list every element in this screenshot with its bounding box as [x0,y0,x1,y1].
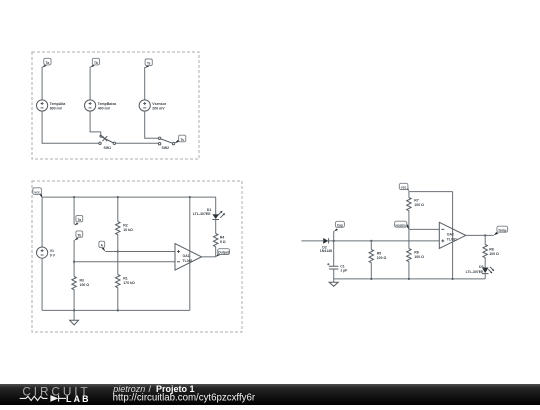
svg-text:SW2: SW2 [162,146,170,150]
bottom bus wire (right circuit) [334,278,486,280]
junction top bus / R2 [117,196,119,198]
svg-text:Ts: Ts [147,62,151,66]
wire R7 to NODE0 [408,211,410,230]
junction main wire / R5 [370,240,372,242]
svg-text:9 V: 9 V [50,254,56,258]
wire V1 to bottom bus [41,258,43,310]
resistor R4 5 Ohm [214,234,226,247]
wire to op-amp inverting input [74,261,175,263]
svg-text:R1: R1 [123,277,128,281]
feedback wire vcc corner to opamp column [409,191,453,193]
svg-text:Ta: Ta [78,218,82,222]
svg-text:400 mV: 400 mV [98,107,111,111]
input wire (right circuit) [302,240,324,242]
wire Ta to V source TempAlta [41,67,43,100]
svg-text:Ts: Ts [180,138,184,142]
dashed enclosure box 1 (sources) [32,52,199,159]
junction bottom bus / R1 [117,309,119,311]
svg-text:Cap: Cap [337,224,343,228]
svg-text:170 kΩ: 170 kΩ [123,281,135,285]
svg-text:R8: R8 [489,248,494,252]
junction bottom bus / R6 [408,278,410,280]
LED D1 LTL-307EE [193,208,225,220]
op-amp supply wire crossing OA2 [452,192,454,279]
svg-text:R4: R4 [220,236,225,240]
wire to capacitor C1 [333,241,335,266]
voltage source V1 9 V [37,247,56,258]
node flag vcc (box2) [33,188,43,198]
svg-text:600 mV: 600 mV [50,107,63,111]
svg-text:LAB: LAB [66,394,91,404]
node flag Tb (box2) [74,231,83,241]
node flag A [99,241,105,251]
voltage source TempBaixa 400 mV [85,100,117,111]
wire NODE0 to op-amp inverting input [409,228,439,230]
junction bottom bus / R5 [370,278,372,280]
svg-text:LTL-307EE: LTL-307EE [466,270,484,274]
wire TempAlta to bottom bus [42,111,99,143]
wire D3 to bottom bus [484,274,486,279]
ground symbol (right circuit) [329,279,338,286]
wire stub node Ta (box2) [73,197,75,224]
svg-text:Ta: Ta [46,61,50,65]
node flag Ta (box1) [42,58,51,67]
bottom bus wire (box2) [42,309,190,311]
svg-text:Vsensor: Vsensor [152,102,166,106]
LED D3 LTL-307EE [466,265,494,274]
resistor R1 170 kOhm [116,275,135,288]
svg-text:SW1: SW1 [104,146,112,150]
wire R2/R1 branch [117,197,119,310]
resistor R6 100 Ohm [407,249,424,262]
svg-text:100 Ω: 100 Ω [414,203,424,207]
resistor R5 100 Ohm [369,241,386,279]
svg-text:R5: R5 [377,252,382,256]
junction R2-R1 divider / opamp plus wire [117,250,119,252]
svg-text:OA2: OA2 [447,233,454,237]
svg-text:Tb: Tb [94,61,98,65]
svg-text:NODE0: NODE0 [396,223,407,227]
op-amp OA2 TL081 [439,222,466,248]
dashed enclosure box 2 (comparator) [32,181,242,332]
svg-text:TempBaixa: TempBaixa [98,102,116,106]
node flag NODE0 [395,221,409,229]
wire Vsensor to switch SW2 [145,111,159,138]
wire OA1 output [202,256,216,258]
wire SW1 to SW2 [116,142,159,144]
svg-text:Tb: Tb [77,233,81,237]
junction top bus / stub A [73,196,75,198]
node flag Cap [334,221,345,231]
svg-text:vcc: vcc [34,191,40,195]
svg-text:vcc: vcc [401,186,407,190]
junction Tb wire / opamp minus wire [73,261,75,263]
top bus wire (box2) [43,196,216,198]
svg-text:100 Ω: 100 Ω [377,256,387,260]
wire TempBaixa to switch SW1 [90,111,101,136]
node flag Output [216,249,230,257]
wire OA2 output [466,234,494,236]
svg-text:100 Ω: 100 Ω [80,283,90,287]
svg-text:R7: R7 [414,199,419,203]
voltage source Vsensor 200 mV [139,100,167,111]
resistor R7 100 Ohm [407,198,424,211]
wire output node down to R8 [484,235,486,244]
node flag Tb (box1) [90,58,99,67]
svg-text:OA1: OA1 [183,254,190,258]
wire Tb stub down through R3 to bottom bus [73,240,75,310]
resistor R2 10 kOhm [116,222,133,235]
wire R8 to LED D3 [484,258,486,268]
svg-text:10 kΩ: 10 kΩ [123,228,133,232]
svg-text:R6: R6 [414,251,419,255]
svg-text:LTL-307EE: LTL-307EE [193,212,211,216]
svg-text:TL081: TL081 [183,259,193,263]
junction output / R8 [484,234,486,236]
svg-text:TL081: TL081 [447,238,457,242]
svg-text:100 Ω: 100 Ω [489,252,499,256]
node flag Temp [494,226,508,235]
node flag vcc (right circuit) [399,183,409,191]
svg-text:Temp: Temp [498,228,506,232]
footer bar [0,384,540,405]
svg-text:http://circuitlab.com/cyt6pzcx: http://circuitlab.com/cyt6pzcxffy6r [113,393,256,404]
ground symbol (box2) [70,310,79,325]
svg-text:D3: D3 [479,265,484,269]
op-amp supply wire crossing OA1 [189,197,191,310]
capacitor C1 1 uF [327,263,348,272]
junction bottom bus / R3 [73,309,75,311]
node flag Ts (switch output) [175,135,186,143]
wire vcc down to R7 [408,192,410,198]
svg-text:R3: R3 [80,279,85,283]
svg-text:V1: V1 [50,249,54,253]
junction top bus / opamp supply wire [189,196,191,198]
switch SW1 [99,135,116,150]
main wire diode to op-amp plus input [329,240,440,242]
junction bottom bus / supply wire [451,278,453,280]
wire D1 to R4 [215,220,217,234]
wire Cap flag to main wire [333,231,335,241]
svg-text:Output: Output [218,251,230,255]
wire C1 to bottom bus [333,269,335,279]
svg-text:R2: R2 [123,224,128,228]
voltage source TempAlta 600 mV [37,100,66,111]
node flag Ts (box1 top) [145,59,153,68]
wire Ts to V source Vsensor [144,67,146,100]
diode D2 1N4148 [320,238,332,253]
switch SW2 [158,137,174,150]
resistor R3 100 Ohm [72,277,89,290]
wire vcc bus to LED D1 [215,197,217,214]
svg-text:200 mV: 200 mV [152,107,165,111]
wire node A to op-amp non-inverting input [105,251,175,253]
svg-text:TempAlta: TempAlta [50,102,66,106]
svg-text:1 µF: 1 µF [340,268,348,272]
op-amp OA1 TL081 [175,244,202,271]
svg-text:100 Ω: 100 Ω [414,255,424,259]
wire Tb to V source TempBaixa [89,67,91,100]
svg-text:5 Ω: 5 Ω [220,240,226,244]
junction main wire / C1 [333,240,335,242]
node flag Ta (box2) [74,215,83,225]
svg-text:1N4148: 1N4148 [320,249,332,253]
resistor R8 100 Ohm [483,245,499,258]
wire R4 to output node [215,247,217,257]
wire vcc bus to V1 [41,197,43,247]
wire NODE0 down through R6 to bottom bus [408,229,410,279]
